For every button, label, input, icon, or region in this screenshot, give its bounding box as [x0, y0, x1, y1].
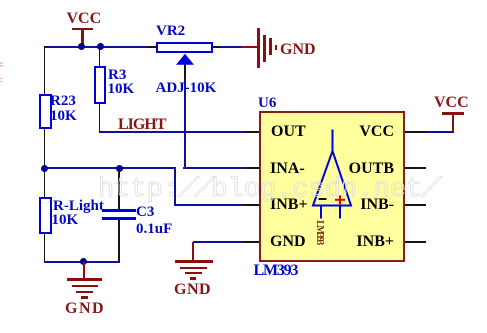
- resistor R3 pin stubs: [99, 47, 101, 67]
- capacitor C3 plates: [102, 209, 136, 212]
- wire bottom: R-Light to C3: [44, 261, 121, 263]
- junction node at R3 branch: [97, 43, 104, 50]
- ground GND (bottom-left): [83, 262, 85, 279]
- decorative edge marks (left border remnants): [0, 62, 3, 64]
- pin stub OUTB: [405, 167, 426, 169]
- label GND (middle): [174, 282, 211, 298]
- pin stub INB+: [245, 204, 259, 206]
- label LM393 (below chip): [254, 263, 298, 279]
- pin label INB+ (right): [330, 234, 394, 250]
- junction node bottom GND tap: [80, 258, 87, 265]
- capacitor C3 pin stubs: [118, 169, 120, 211]
- ground GND (middle): [192, 242, 194, 261]
- label VR2: [156, 24, 185, 39]
- pin stub INB+: [405, 241, 426, 243]
- pin label INB+ (left): [270, 197, 308, 213]
- wire left rail to INB+ pin: [44, 167, 176, 169]
- label VCC (top-left): [67, 11, 102, 27]
- resistor R23: [39, 94, 52, 130]
- wire top rail from left corner to VR2: [44, 46, 151, 48]
- pin label OUT: [271, 124, 306, 140]
- op-amp minus input mark: [319, 198, 327, 200]
- potentiometer VR2 body: [156, 42, 213, 54]
- wire LIGHT net: R3 bottom to OUT pin: [99, 131, 245, 133]
- junction node at VCC stem: [78, 43, 85, 50]
- pin label INB-: [330, 197, 394, 213]
- wire VR2 wiper to INA- pin: [184, 64, 186, 78]
- op-amp plus input mark: [335, 195, 345, 204]
- label C3 0.1uF: [136, 205, 154, 220]
- wire left rail vertical segments: [44, 46, 46, 94]
- label R23 10K: [50, 94, 76, 109]
- potentiometer VR2 wiper arrow: [176, 54, 194, 65]
- resistor R-Light: [39, 197, 52, 235]
- junction node C3 branch: [116, 165, 123, 172]
- pin stub OUT: [245, 131, 259, 133]
- label R3 10K: [108, 68, 126, 83]
- junction node left rail / INB+ wire: [41, 165, 48, 172]
- net label LIGHT: [118, 117, 165, 133]
- power symbol VCC (top-left): [72, 28, 94, 31]
- pin label OUTB: [330, 161, 394, 177]
- pin stub INB-: [405, 204, 426, 206]
- wire VCC pin to power symbol (right): [426, 131, 454, 133]
- label ADJ-10K: [156, 81, 217, 96]
- resistor R3: [94, 66, 106, 104]
- label LM393 (vertical, inside chip): [314, 220, 324, 244]
- label VCC (right): [434, 95, 469, 111]
- pin stub VCC (right): [405, 131, 426, 133]
- label GND (bottom-left): [65, 301, 105, 317]
- op-amp U6 body: [259, 111, 406, 262]
- ground GND (top, sideways earth): [241, 46, 258, 48]
- label U6: [258, 96, 276, 111]
- pin label INA-: [270, 161, 305, 177]
- op-amp triangle U6 internal: [313, 130, 351, 219]
- power symbol VCC (right): [452, 113, 454, 132]
- pin stub GND: [244, 241, 259, 243]
- wire chip GND pin to middle ground: [193, 241, 245, 243]
- label GND (top): [280, 42, 316, 58]
- potentiometer VR2 pin stubs: [148, 46, 156, 48]
- label R-Light 10K: [53, 199, 104, 214]
- pin label VCC (right): [330, 124, 394, 140]
- watermark: [98, 177, 438, 204]
- wire VR2 to top GND: [220, 46, 242, 48]
- pin label GND: [270, 234, 306, 250]
- pin stub INA-: [245, 167, 259, 169]
